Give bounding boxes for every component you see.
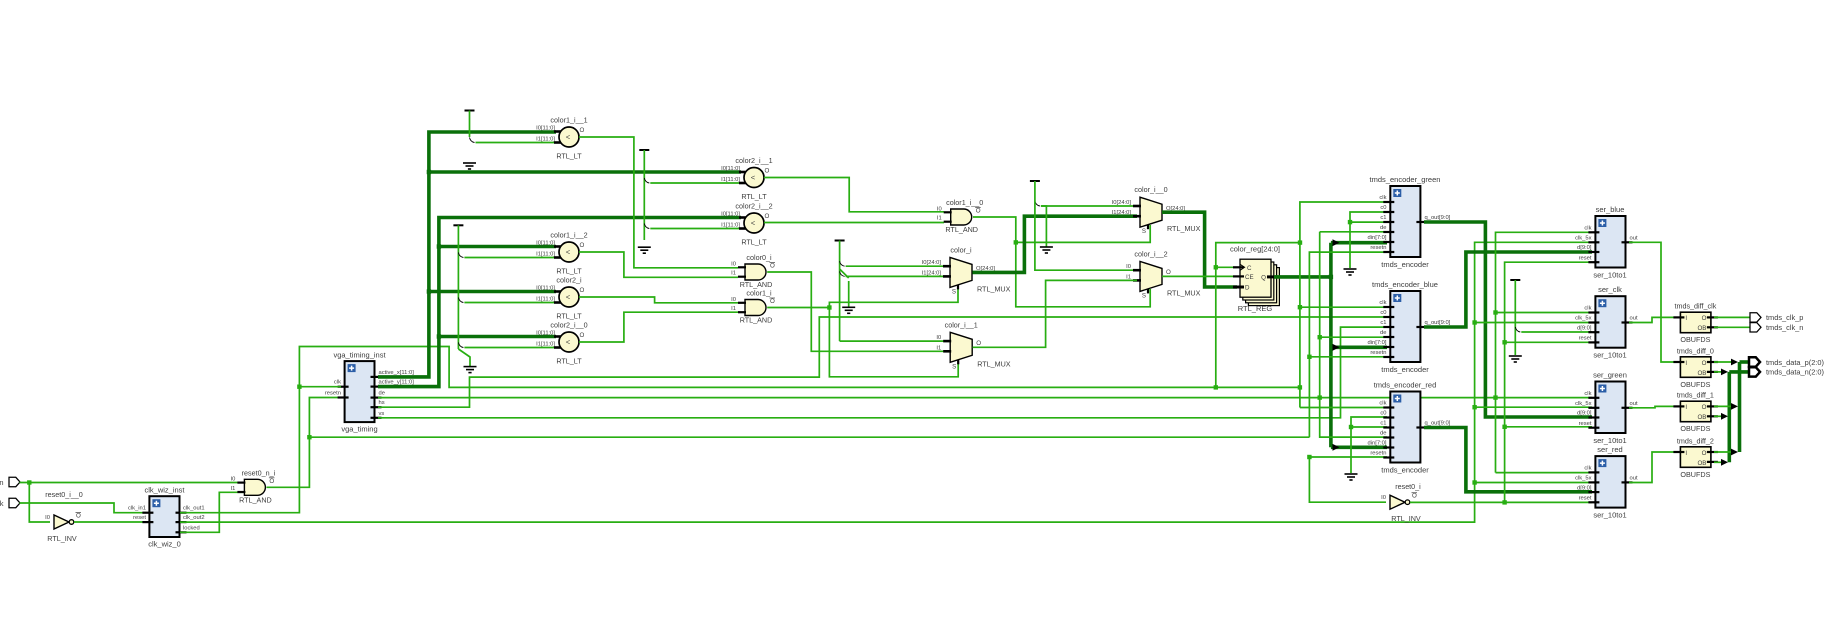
svg-text:tmds_encoder_green: tmds_encoder_green [1370,175,1441,184]
svg-text:clk_5x: clk_5x [1575,476,1592,482]
wire ser_green clk tap [1496,397,1593,399]
svg-text:tmds_diff_2: tmds_diff_2 [1677,436,1714,445]
wire tie to color2_i__2 I1 [650,228,741,230]
svg-text:OBUFDS: OBUFDS [1680,470,1710,479]
svg-text:RTL_MUX: RTL_MUX [1167,224,1201,233]
svg-text:D: D [1245,285,1250,292]
svg-text:RTL_LT: RTL_LT [556,267,582,276]
junction clock riser branch [1298,240,1302,244]
wire tie to color_i I0 [846,265,947,267]
comparator color2_i__1 RTL_LT [744,168,764,188]
wire color2_i__1 O to color1_i__0 I0 [764,178,944,212]
svg-text:I1: I1 [936,345,941,351]
wire color1_i__1 O to color0_i I0 [579,137,738,268]
svg-text:hs: hs [379,400,385,406]
svg-text:d[9:0]: d[9:0] [1577,485,1592,491]
svg-text:I1[24:0]: I1[24:0] [922,270,942,276]
svg-text:I0: I0 [231,477,236,483]
wire de to blue encoder de [1320,336,1387,338]
svg-text:clk: clk [1584,391,1591,397]
wire tmds_diff_1 OB to data_n bus [1714,415,1726,417]
mux color_i RTL_MUX [950,257,972,287]
tie constant for color_i__0 I0 [1030,180,1040,182]
svg-text:clk_out1: clk_out1 [183,506,205,512]
buffer tmds_diff_1 OBUFDS [1680,401,1711,422]
wire tmds_diff_0 OB to data_n bus [1714,371,1726,373]
output port tmds_data_n(2:0) [1749,367,1760,376]
wire tmds_diff_clk OB to port [1714,326,1750,328]
svg-text:n: n [0,478,4,487]
buffer tmds_diff_0 OBUFDS [1680,357,1711,378]
svg-text:I0[11:0]: I0[11:0] [721,166,740,172]
svg-text:I1: I1 [731,271,736,277]
wire de net long run [378,397,1496,399]
svg-text:reset: reset [1579,421,1592,427]
wire color0_i O to color_i__1 I1 [767,272,944,351]
svg-text:out: out [1630,401,1638,407]
junction blue de tap [1318,335,1322,339]
svg-text:tmds_data_p(2:0): tmds_data_p(2:0) [1766,358,1824,367]
svg-text:S: S [1142,228,1146,235]
svg-text:I: I [1685,360,1687,367]
svg-text:clk: clk [1584,226,1591,232]
wire clock branch to reg C [1216,243,1300,388]
svg-text:color2_i__1: color2_i__1 [735,156,772,165]
svg-text:I0: I0 [937,206,942,212]
svg-text:RTL_LT: RTL_LT [556,312,582,321]
svg-text:color1_i__1: color1_i__1 [550,116,587,125]
junction port1 branch [27,480,31,484]
svg-text:active_y[11:0]: active_y[11:0] [379,380,415,386]
svg-text:clk: clk [1379,300,1386,306]
tie ground green encoder c0 c1 [1350,212,1387,268]
svg-text:active_x[11:0]: active_x[11:0] [379,370,415,376]
wire tie to color_i I1 [846,275,947,277]
ground color2 tie [638,247,651,253]
wire clk_5x ser_clk tap [1475,322,1592,324]
wire resetn down to reset0_i [1309,457,1386,502]
wire clock to red encoder clk [1300,407,1387,409]
svg-text:ser_10to1: ser_10to1 [1593,436,1626,445]
svg-text:OB: OB [1697,325,1706,332]
svg-text:clk: clk [1584,306,1591,312]
svg-text:tmds_encoder: tmds_encoder [1381,365,1429,374]
block tmds_encoder_red tmds_encoder [1390,392,1420,463]
wire clk_5x ser_red tap [1475,482,1592,484]
svg-text:c0: c0 [1380,205,1386,211]
junction ser clk rail feed [1493,395,1497,399]
svg-text:I0: I0 [731,297,736,303]
comparator color2_i RTL_LT [559,287,579,307]
svg-text:I0[11:0]: I0[11:0] [536,331,555,337]
comparator color1_i__2 RTL_LT [559,242,579,262]
svg-text:color_reg[24:0]: color_reg[24:0] [1230,245,1280,254]
svg-text:color1_i__0: color1_i__0 [946,198,983,207]
svg-text:d[9:0]: d[9:0] [1577,245,1592,251]
svg-text:ser_10to1: ser_10to1 [1593,271,1626,280]
svg-text:<: < [751,219,756,228]
svg-text:color1_i: color1_i [746,289,772,298]
junction din riser [1329,275,1333,279]
svg-text:c1: c1 [1380,320,1386,326]
svg-text:<: < [566,133,571,142]
svg-text:reset0_i__0: reset0_i__0 [45,490,83,499]
ground color_i__0 tie [1040,247,1053,253]
wire reset0_i out to ser resets [1410,501,1592,503]
block ser_green ser_10to1 [1595,382,1625,434]
wire select down to color_i__2 S [1016,242,1150,306]
svg-text:CE: CE [1245,274,1254,281]
svg-text:color_i__1: color_i__1 [945,320,978,329]
svg-text:clk: clk [334,380,341,386]
svg-text:I0: I0 [45,515,50,521]
svg-text:I1: I1 [937,216,942,222]
svg-text:O: O [1702,404,1707,411]
svg-text:ser_green: ser_green [1593,371,1627,380]
svg-text:I0: I0 [1126,264,1131,270]
svg-text:OBUFDS: OBUFDS [1680,335,1710,344]
svg-text:resetn: resetn [1370,350,1386,356]
svg-text:O: O [976,340,981,347]
svg-text:OB: OB [1697,414,1706,421]
svg-text:c1: c1 [1380,421,1386,427]
svg-text:k: k [0,499,4,508]
wire tmds_diff_clk O to port [1714,316,1750,318]
svg-text:O: O [1702,315,1707,322]
comparator color2_i__2 RTL_LT [744,213,764,233]
svg-text:tmds_encoder_blue: tmds_encoder_blue [1372,280,1438,289]
bus blue q_out to ser_blue d [1424,252,1592,327]
input port clk [9,477,20,486]
bus branch to color2_i I0 [429,290,556,294]
svg-text:S: S [952,363,956,370]
svg-text:clk_wiz_0: clk_wiz_0 [148,540,181,549]
svg-text:I1[11:0]: I1[11:0] [721,223,740,229]
svg-text:O: O [269,478,274,485]
block tmds_encoder_blue tmds_encoder [1390,291,1420,362]
wire port2 to clk_wiz clk_in1 [20,503,147,513]
junction bus active_y to color1_i__2 [437,244,441,248]
svg-text:tmds_encoder: tmds_encoder [1381,260,1429,269]
svg-text:clk: clk [1379,401,1386,407]
svg-text:reset: reset [133,515,146,521]
wire resetn to red encoder [1309,456,1387,458]
ground ser_clk d tie [1509,356,1522,362]
svg-text:color2_i: color2_i [556,276,582,285]
svg-text:ser_clk: ser_clk [1598,285,1622,294]
junction resetn net [307,435,311,439]
svg-text:O: O [76,513,81,520]
bus tmds_data_p vertical [1738,362,1742,452]
svg-text:I1[11:0]: I1[11:0] [536,252,555,258]
svg-text:I0: I0 [936,335,941,341]
svg-text:I1: I1 [1126,274,1131,280]
wire locked to reset0_n_i I1 [180,492,244,532]
svg-text:tmds_encoder_red: tmds_encoder_red [1374,381,1437,390]
svg-text:color2_i__0: color2_i__0 [550,321,587,330]
svg-text:din[7:0]: din[7:0] [1367,235,1386,241]
wire ser_clk reset tap [1505,341,1592,343]
svg-text:din[7:0]: din[7:0] [1367,441,1386,447]
wire clk_out1 up to clock net [180,347,1300,513]
svg-text:vga_timing_inst: vga_timing_inst [333,351,386,360]
buffer tmds_diff_clk OBUFDS [1680,312,1711,333]
svg-text:d[9:0]: d[9:0] [1577,411,1592,417]
junction ser reset riser [1502,500,1506,504]
bus color_i O to color_i__0 I1 [973,216,1138,272]
svg-text:O: O [770,298,775,305]
svg-text:I0[11:0]: I0[11:0] [536,126,555,132]
svg-text:I1[11:0]: I1[11:0] [536,137,555,143]
inverter reset0_i [1390,495,1405,509]
svg-text:tmds_diff_clk: tmds_diff_clk [1674,302,1716,311]
wire color1_i O to junction [767,307,829,309]
ground comparator group 2 [464,367,477,373]
svg-text:O: O [765,168,770,175]
svg-text:clk_5x: clk_5x [1575,316,1592,322]
svg-text:I: I [1685,315,1687,322]
wire hs to blue encoder c0 [378,317,1387,407]
svg-text:color2_i__2: color2_i__2 [735,202,772,211]
wire tie to color2_i__0 I1 [464,347,556,349]
svg-text:color1_i__2: color1_i__2 [550,231,587,240]
svg-text:<: < [751,173,756,182]
wire tie to color2_i__1 I1 [650,182,741,184]
bus din to red encoder [1331,445,1387,449]
svg-text:reset0_i: reset0_i [1395,482,1421,491]
wire port1 to reset0_n_i I0 [20,482,244,484]
wire tie to ser_clk d [1521,331,1592,333]
svg-text:I1[11:0]: I1[11:0] [536,297,555,303]
svg-text:I1[11:0]: I1[11:0] [721,177,740,183]
svg-text:C: C [1247,265,1252,272]
bus din to green encoder [1331,241,1387,245]
svg-text:RTL_AND: RTL_AND [239,495,272,504]
wire vs to blue encoder c1 [378,327,1387,418]
gate color0_i RTL_AND [745,264,766,280]
junction clock riser at clock net [1298,385,1302,389]
svg-text:O: O [580,127,585,134]
wire color2_i O to color1_i I0 [579,297,738,303]
wire ser reset riser [1505,262,1592,502]
svg-text:out: out [1630,236,1638,242]
wire ser_red out to tmds_diff_2 [1629,452,1677,483]
bus branch to color2_i__0 I0 [439,335,556,339]
svg-text:OB: OB [1697,370,1706,377]
tie constant for color_i inputs [835,240,845,242]
junction bus active_x to color2_i__1 [427,170,431,174]
mux color_i__2 RTL_MUX [1140,261,1162,291]
svg-text:I0[11:0]: I0[11:0] [536,241,555,247]
tie constant for comparator group 2 [453,224,463,226]
wire branch up to color_i S [829,285,958,308]
svg-text:locked: locked [183,525,200,531]
inverter reset0_i__0 [54,515,69,529]
wire tie branch down to color_i__2 I0 [1035,200,1137,270]
wire clock riser for encoders [1300,202,1387,408]
junction red resetn tap [1307,455,1311,459]
svg-text:OBUFDS: OBUFDS [1680,380,1710,389]
svg-text:c1: c1 [1380,215,1386,221]
svg-text:I0[11:0]: I0[11:0] [721,212,740,218]
input port resetn [9,498,20,507]
svg-text:tmds_clk_n: tmds_clk_n [1766,323,1803,332]
wire color2_i__0 O to color1_i I1 [579,312,738,342]
svg-text:ser_blue: ser_blue [1596,205,1625,214]
wire branch down to color_i__1 S [829,308,958,377]
wire tmds_diff_2 OB to data_n bus [1714,461,1726,463]
svg-text:RTL_MUX: RTL_MUX [1167,288,1201,297]
svg-text:O: O [1702,450,1707,457]
svg-text:out: out [1630,316,1638,322]
svg-text:I0: I0 [731,261,736,267]
svg-text:ser_red: ser_red [1597,445,1622,454]
wire ser_clk out to tmds_diff_clk [1629,317,1677,322]
svg-text:color0_i: color0_i [746,253,772,262]
svg-text:vga_timing: vga_timing [341,425,377,434]
svg-text:din[7:0]: din[7:0] [1367,340,1386,346]
wire tmds_diff_2 O to data_p bus [1714,451,1736,453]
wire tie to color1_i__1 I1 [476,142,557,144]
wire clk_out2 long run 5x clock [180,242,1592,522]
svg-text:color_i: color_i [950,245,972,254]
junction select net [1014,240,1018,244]
svg-text:clk: clk [1584,466,1591,472]
svg-text:resetn: resetn [325,391,341,397]
ground color_i tie [842,307,855,313]
output port tmds_data_p(2:0) [1749,357,1760,366]
svg-text:I0[24:0]: I0[24:0] [1112,200,1132,206]
svg-text:color_i__0: color_i__0 [1134,185,1167,194]
wire select to color_i__0 S [1016,225,1150,242]
svg-text:ser_10to1: ser_10to1 [1593,511,1626,520]
svg-text:tmds_diff_0: tmds_diff_0 [1677,346,1714,355]
svg-text:<: < [566,248,571,257]
svg-text:de: de [1380,330,1386,336]
wire tmds_diff_1 O to data_p bus [1714,405,1736,407]
svg-text:O: O [580,332,585,339]
wire clock to blue encoder clk [1300,306,1387,308]
svg-text:S: S [1142,292,1146,299]
svg-text:de: de [379,391,385,397]
bus green q_out to ser_green d [1424,222,1592,417]
svg-text:RTL_LT: RTL_LT [556,152,582,161]
svg-text:Q: Q [1261,275,1266,282]
svg-text:clk_5x: clk_5x [1575,236,1592,242]
wire port1 branch down to inverter [29,483,50,523]
wire ser_clk clk tap [1496,312,1593,314]
svg-text:clk_wiz_inst: clk_wiz_inst [144,486,185,495]
junction reg C tap [1214,265,1218,269]
svg-text:clk_out2: clk_out2 [183,515,205,521]
svg-text:color_i__2: color_i__2 [1134,249,1167,258]
svg-text:c0: c0 [1380,411,1386,417]
junction color1_i O [827,305,831,309]
svg-text:reset: reset [1579,336,1592,342]
wire color2_i__2 O to color1_i__0 I1 [764,222,944,224]
svg-text:OBUFDS: OBUFDS [1680,424,1710,433]
wire ser_red clk tap [1496,472,1593,474]
bus din to blue encoder [1331,345,1387,349]
wire resetn riser for encoders [1309,252,1387,437]
tie constant ser_clk d [1510,279,1520,281]
wire tie down to color_i__1 I0 [840,340,944,342]
svg-text:tmds_diff_1: tmds_diff_1 [1677,391,1714,400]
svg-text:RTL_INV: RTL_INV [47,534,77,543]
tie constant for color2 comparators [639,149,649,151]
svg-text:RTL_MUX: RTL_MUX [977,359,1011,368]
svg-text:c0: c0 [1380,310,1386,316]
wire inverter out to clk_wiz reset [74,521,146,523]
svg-text:reset: reset [1579,496,1592,502]
svg-text:clk_5x: clk_5x [1575,401,1592,407]
gate color1_i__0 RTL_AND [951,209,972,225]
wire ser_blue out to tmds_diff_0 [1629,242,1677,362]
gate reset0_n_i RTL_AND [244,479,265,495]
svg-text:I0[24:0]: I0[24:0] [922,260,942,266]
wire tmds_diff_0 O to data_p bus [1714,361,1736,363]
svg-text:RTL_INV: RTL_INV [1391,514,1421,523]
output port tmds_clk_p [1750,313,1761,322]
svg-text:I1[11:0]: I1[11:0] [536,342,555,348]
junction vga clk tap [297,385,301,389]
svg-text:vs: vs [379,411,385,417]
svg-text:O: O [1702,360,1707,367]
wire ser_green reset tap [1505,426,1592,428]
bus active_y up left side [378,218,741,387]
bus branch to color1_i__2 I0 [439,245,556,249]
svg-text:reset: reset [1579,255,1592,261]
junction blue resetn tap [1307,355,1311,359]
bus red q_out to ser_red d [1424,428,1592,492]
block vga_timing [345,361,375,422]
svg-text:O: O [1166,269,1171,276]
svg-text:RTL_REG: RTL_REG [1238,304,1273,313]
svg-text:RTL_LT: RTL_LT [741,192,767,201]
block clk_wiz_0 [149,496,179,537]
svg-text:I0[11:0]: I0[11:0] [536,286,555,292]
svg-text:tmds_data_n(2:0): tmds_data_n(2:0) [1766,368,1824,377]
svg-text:out: out [1630,476,1638,482]
svg-text:de: de [1380,431,1386,437]
svg-text:RTL_LT: RTL_LT [556,357,582,366]
svg-text:O: O [1412,493,1417,500]
junction bus active_y to color2_i__0 [437,334,441,338]
bus din riser down [1329,277,1333,447]
svg-text:RTL_MUX: RTL_MUX [977,284,1011,293]
bus to port tmds_data_p [1740,360,1750,364]
output port tmds_clk_n [1750,323,1761,332]
register color_reg[24:0] RTL_REG [1248,268,1279,306]
svg-text:S: S [952,288,956,295]
junction blue clk tap [1298,305,1302,309]
wire color1_i__0 O select net [973,217,1016,242]
svg-text:reset0_n_i: reset0_n_i [242,468,276,477]
wire color_i__2 O to reg CE [1162,275,1237,277]
svg-text:resetn: resetn [1370,451,1386,457]
svg-text:ser_10to1: ser_10to1 [1593,351,1626,360]
bus color_i__0 O to reg D [1162,212,1237,287]
tie constant for color1_i__1 I1 [465,110,475,112]
block ser_clk ser_10to1 [1595,296,1625,348]
wire ser_green out to tmds_diff_1 [1629,406,1677,407]
svg-text:tmds_encoder: tmds_encoder [1381,466,1429,475]
svg-text:I: I [1685,404,1687,411]
block tmds_encoder_green tmds_encoder [1390,186,1420,257]
bus reg Q to din riser [1274,243,1331,277]
svg-text:RTL_AND: RTL_AND [740,316,773,325]
svg-text:tmds_clk_p: tmds_clk_p [1766,313,1803,322]
